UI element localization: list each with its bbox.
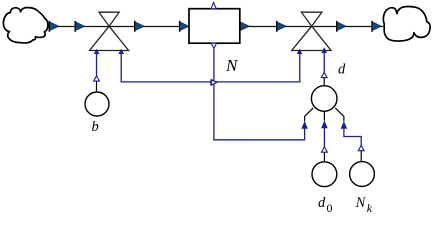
svg-text:d: d xyxy=(318,195,326,211)
black stub Nk circle top xyxy=(360,151,362,162)
svg-text:b: b xyxy=(92,119,99,135)
wire: trunk branch left to valve F1 xyxy=(121,50,214,82)
link d0 to d: blue stem xyxy=(323,128,325,147)
valve F2 (death rate valve) xyxy=(292,12,331,50)
hollow marker on d link xyxy=(321,72,327,77)
arrowhead into d circle (from Nk, right input) xyxy=(341,121,348,129)
valve F1 (birth rate valve) xyxy=(90,12,129,50)
flow arrowhead H (into right cloud) xyxy=(371,21,381,32)
black stub d circle to link xyxy=(323,78,325,87)
flow arrowhead B (before valve F1) xyxy=(75,21,85,32)
arrowhead into valve F1 bottom (from b) xyxy=(94,49,100,54)
converter circle b xyxy=(85,92,109,116)
hollow direction marker at trunk junction xyxy=(211,80,217,86)
hollow marker on Nk link xyxy=(358,145,364,151)
svg-text:d: d xyxy=(338,62,346,78)
black stub d circle bottom xyxy=(323,112,325,121)
black elbow from d circle lower-left to N-link arrow xyxy=(305,108,314,121)
arrowhead into valve F2 bottom (from N) xyxy=(297,49,303,54)
svg-text:N: N xyxy=(355,195,367,211)
hollow arrow below stock N bottom xyxy=(211,43,216,48)
stock N (level rectangle) xyxy=(189,9,240,44)
black stub b circle to link xyxy=(96,81,98,92)
hollow marker on b link xyxy=(94,76,100,81)
flow arrowhead D (into stock N) xyxy=(179,21,189,32)
flow arrowhead F (before valve F2) xyxy=(276,21,286,32)
right cloud (sink) xyxy=(383,7,430,42)
arrowhead into d circle (from N, left input) xyxy=(301,121,308,129)
flow arrowhead G (after valve F2) xyxy=(336,21,346,32)
arrowhead into d circle (from d0, bottom input) xyxy=(321,120,328,128)
converter circle d0 xyxy=(312,162,337,187)
arrowhead into valve F2 bottom (from d) xyxy=(321,47,327,53)
wire: trunk branch right to valve F2 xyxy=(214,50,300,82)
link b to valve F1: blue stem xyxy=(96,52,98,76)
black stub d0 circle top xyxy=(323,152,325,162)
converter circle d xyxy=(311,86,337,112)
converter circle Nk xyxy=(350,162,375,187)
wire: birth flow pipe (cloud to stock N) xyxy=(45,26,189,28)
link d to valve F2: blue stem xyxy=(323,52,325,72)
hollow arrow above stock N top xyxy=(211,2,216,8)
link N to valve F1 (blue, from stock trunk left and up) xyxy=(214,48,305,139)
wire: death flow pipe (stock N to cloud) xyxy=(240,26,383,28)
svg-text:k: k xyxy=(367,201,373,215)
left cloud (source) xyxy=(3,8,47,43)
flow arrowhead C (after valve F1) xyxy=(134,21,144,32)
hollow marker on d0 link xyxy=(322,147,328,152)
black elbow from d circle lower-right xyxy=(335,108,344,121)
link Nk to d: blue elbow xyxy=(344,129,361,145)
svg-text:0: 0 xyxy=(327,201,333,215)
flow arrowhead A (after left cloud) xyxy=(49,21,59,32)
flow arrowhead E (out of stock N) xyxy=(240,22,249,31)
arrowhead into valve F1 bottom (from N) xyxy=(118,49,124,54)
svg-text:N: N xyxy=(225,56,239,75)
